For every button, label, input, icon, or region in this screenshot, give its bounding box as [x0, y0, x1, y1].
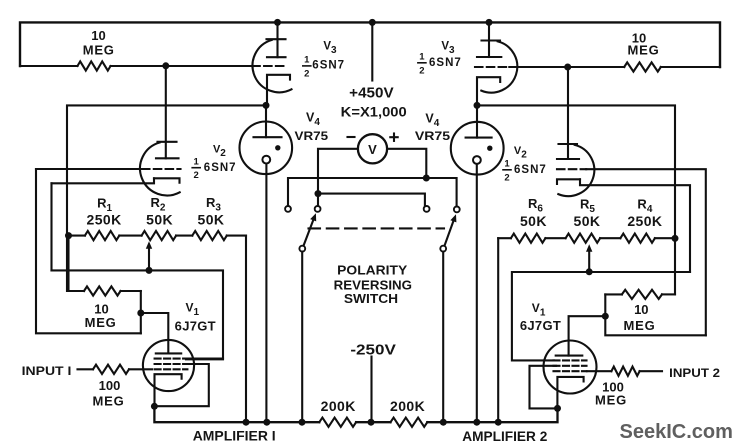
grid dashes row2 V1-right [554, 365, 587, 367]
svg-text:MEG: MEG [627, 43, 659, 58]
node V3-left plate junction on top rail [274, 19, 281, 26]
wire V2-right cathode line [580, 179, 690, 272]
gas dot V4-right [487, 146, 492, 151]
svg-text:AMPLIFIER I: AMPLIFIER I [193, 428, 276, 444]
node V4-right cathode on rail [473, 419, 480, 426]
wire -250V lead [370, 357, 372, 423]
switch arm 1 [304, 213, 317, 246]
svg-text:INPUT I: INPUT I [22, 364, 72, 378]
cathode V1-left [155, 374, 182, 406]
svg-text:50K: 50K [520, 213, 547, 229]
svg-text:250K: 250K [627, 213, 662, 229]
wire V1-left grid lead [141, 313, 169, 353]
pivot pole 1 [299, 246, 305, 252]
svg-text:MEG: MEG [85, 315, 117, 330]
resistor 200K right [391, 418, 428, 427]
wire meter plus sign [390, 134, 397, 141]
wire bottom rail mid [356, 421, 390, 423]
wire V3-left cathode to left rail [67, 105, 266, 291]
cathode bar V2-left [154, 178, 180, 182]
svg-text:V1: V1 [532, 301, 546, 319]
svg-text:MEG: MEG [595, 393, 627, 408]
svg-text:250K: 250K [87, 211, 122, 227]
node V2-left plate tap on grid line [162, 62, 169, 69]
node R4 right end on rail [672, 235, 679, 242]
wire meter plus lead [387, 149, 426, 178]
svg-text:200K: 200K [390, 398, 425, 414]
wire V3-right cathode to right rail [477, 105, 675, 294]
resistor chain R6 R5 R4 [498, 234, 675, 243]
grid dashes row1 V1-right [554, 359, 587, 361]
node R3 drop on rail [243, 419, 250, 426]
svg-text:50K: 50K [574, 213, 601, 229]
svg-text:V2: V2 [514, 145, 527, 161]
wire V2-left grid line [36, 168, 142, 170]
contact C2 [315, 206, 321, 212]
tube V3 right (1/2 6SN7) envelope [481, 41, 517, 93]
wire wiper line to V1-right screen [512, 272, 690, 360]
resistor 100 MEG right [611, 367, 662, 376]
cathode V1-right [557, 377, 583, 409]
wire bottom rail left end [154, 406, 319, 422]
svg-text:V: V [368, 142, 377, 157]
plate cap bar V1-right [556, 355, 583, 357]
wire V1-left input inside [129, 368, 152, 370]
node -250V on rail [368, 419, 375, 426]
wire V1-right grid lead [569, 316, 606, 355]
svg-text:V3: V3 [441, 41, 455, 57]
resistor 10 MEG lower-right [605, 290, 675, 299]
plate cap bar V1-left [156, 352, 181, 354]
wire V3-right plate lead [488, 22, 490, 57]
node V3-right cathode / V4-right anode [474, 102, 481, 109]
wire V2-left plate lead [165, 66, 167, 158]
resistor 10 MEG top-right [509, 62, 720, 71]
wire pole 1 to bottom rail [301, 252, 303, 423]
svg-text:V1: V1 [186, 300, 200, 318]
svg-text:+450V: +450V [349, 84, 393, 101]
node V1-right cathode junction [554, 405, 561, 412]
wire V1-left screen exit [186, 358, 223, 360]
svg-text:R6: R6 [528, 196, 543, 215]
svg-text:50K: 50K [198, 211, 225, 227]
svg-text:6SN7: 6SN7 [204, 162, 237, 174]
grid dashes V2-left [142, 168, 181, 170]
svg-text:MEG: MEG [92, 393, 124, 408]
grid dashes V3-right [475, 66, 509, 68]
node V2-right plate tap on grid line [564, 64, 571, 71]
wire B+ top rail with corner drops [20, 22, 720, 67]
wire meter minus lead [318, 149, 358, 194]
svg-text:REVERSING: REVERSING [334, 278, 412, 292]
plate bar V3-right [477, 56, 501, 58]
tube V4 right VR75 envelope [451, 122, 504, 175]
tube V2 right (1/2 6SN7) envelope [558, 144, 594, 196]
wire outer contact rail [288, 178, 457, 206]
svg-text:2: 2 [504, 172, 509, 183]
wire V4-right cathode to bottom rail [476, 164, 478, 422]
svg-text:100: 100 [99, 378, 121, 393]
svg-text:200K: 200K [321, 398, 356, 414]
node R2 wiper junction [146, 267, 153, 274]
wire wiper line to V1-left screen [52, 270, 224, 359]
wire R3 right end to bottom rail [245, 236, 247, 423]
plate bar V2-right [557, 158, 579, 160]
wiper arrow R2 [146, 241, 152, 270]
svg-text:V2: V2 [213, 144, 226, 160]
svg-text:MEG: MEG [83, 42, 115, 57]
svg-text:10: 10 [91, 28, 105, 43]
svg-text:POLARITY: POLARITY [337, 264, 408, 278]
wire V3-left plate lead [276, 22, 278, 57]
node R1 left end on rail [65, 232, 72, 239]
switch arm 2 [445, 214, 457, 245]
node V3-right plate junction on top rail [486, 19, 493, 26]
node +450V junction on top rail [369, 19, 376, 26]
meter V envelope [358, 134, 387, 163]
node V3-left cathode / V4-left anode [263, 102, 270, 109]
wire V4-left cathode to bottom rail [265, 164, 267, 422]
label 1/2 6SN7 V3-right [418, 52, 462, 77]
plate bar V3-left [267, 56, 286, 58]
node R5 wiper junction [586, 268, 593, 275]
svg-text:1: 1 [194, 157, 200, 168]
grid dashes row1 V1-left [155, 358, 188, 360]
wire V4-right anode lead [476, 105, 478, 137]
node meter minus to inner contacts [315, 190, 322, 197]
node V1-right grid junction [602, 313, 609, 320]
node V1-left cathode junction [151, 403, 158, 410]
svg-text:SWITCH: SWITCH [344, 292, 398, 306]
grid dashes row3 V1-right [554, 370, 587, 372]
wire V4-left anode lead [265, 105, 267, 137]
wire V1-right suppressor tie [530, 366, 557, 409]
svg-text:AMPLIFIER 2: AMPLIFIER 2 [462, 428, 547, 444]
svg-text:VR75: VR75 [295, 129, 329, 143]
contact C1 [285, 206, 291, 212]
tube V3 left (1/2 6SN7) envelope [253, 39, 292, 92]
grid dashes V3-left [252, 65, 285, 67]
svg-text:6J7GT: 6J7GT [175, 318, 216, 333]
gas dot V4-left [275, 145, 280, 150]
wire V1-left suppressor tie [158, 364, 209, 406]
label 1/2 6SN7 V2-left [192, 157, 236, 182]
wire V2-left cathode line [52, 178, 155, 183]
wire bottom rail right end [427, 408, 557, 422]
svg-text:50K: 50K [146, 211, 173, 227]
svg-text:MEG: MEG [623, 318, 655, 333]
svg-text:2: 2 [194, 170, 199, 181]
resistor 100 MEG left [78, 365, 130, 374]
cathode circle V4-left [262, 156, 270, 164]
svg-text:-250V: -250V [350, 341, 396, 358]
resistor 10 MEG top-left [20, 61, 252, 70]
grid dashes V2-right [557, 168, 586, 170]
grid dashes row3 V1-left [155, 368, 188, 370]
cathode bar V2-right [557, 179, 580, 184]
contact C4 [454, 207, 460, 213]
wire V2-right grid line [586, 169, 706, 335]
wiper arrow R5 [586, 244, 592, 271]
wire V1-right input inside [587, 370, 611, 372]
wire left rail to 10MEG lower [69, 236, 85, 291]
wire V2-right plate lead [567, 67, 569, 159]
anode bar V4-left [254, 136, 282, 138]
wire V2-left cathode drop [50, 183, 52, 270]
svg-text:2: 2 [419, 65, 424, 76]
node V1-left grid junction [137, 310, 144, 317]
svg-text:V4: V4 [425, 112, 439, 130]
svg-text:VR75: VR75 [415, 129, 451, 143]
contact C3 [424, 206, 430, 212]
svg-text:V4: V4 [306, 111, 320, 129]
node V4-left cathode on rail [263, 419, 270, 426]
wire pole 2 to bottom rail [442, 252, 444, 423]
svg-text:1: 1 [419, 52, 425, 63]
svg-text:SeekIC.com: SeekIC.com [620, 421, 733, 443]
svg-text:K=X1,000: K=X1,000 [341, 105, 407, 120]
label 1/2 6SN7 V2-right [503, 159, 547, 184]
wire inner contact rail [318, 194, 425, 206]
node pole1 on rail [299, 419, 306, 426]
resistor chain R1 R2 R3 [69, 231, 247, 240]
grid dashes row2 V1-left [155, 363, 188, 365]
svg-text:6SN7: 6SN7 [514, 164, 547, 176]
svg-text:6SN7: 6SN7 [312, 59, 345, 71]
tube V1 left 6J7GT envelope [143, 340, 194, 391]
dashed gang link [309, 227, 445, 229]
tube V2 left (1/2 6SN7) envelope [140, 142, 180, 196]
svg-text:1: 1 [504, 159, 510, 170]
wire V2-left grid drop [36, 169, 141, 333]
node meter plus on outer rail [423, 175, 430, 182]
wire R6 left end to bottom rail [497, 238, 499, 422]
tube V4 left VR75 envelope [239, 122, 292, 175]
node pole2 on rail [440, 419, 447, 426]
svg-text:2: 2 [304, 68, 309, 79]
plate bar V2-left [156, 157, 179, 159]
tube V1 right 6J7GT envelope [544, 341, 597, 394]
anode bar V4-right [466, 137, 492, 139]
svg-text:6SN7: 6SN7 [429, 57, 462, 69]
svg-text:V3: V3 [323, 41, 337, 57]
svg-text:6J7GT: 6J7GT [520, 318, 561, 333]
wire meter minus sign [348, 136, 355, 138]
wire 10MEG lower-right left corner [605, 294, 706, 335]
pivot pole 2 [440, 246, 446, 252]
cathode V3-right [477, 77, 500, 105]
svg-text:10: 10 [634, 302, 648, 317]
svg-text:1: 1 [304, 55, 310, 66]
resistor 10 MEG lower-left [84, 286, 141, 295]
wire 10MEG lower right corner [140, 291, 142, 333]
node R6 drop on rail [495, 419, 502, 426]
label 1/2 6SN7 V3-left [303, 55, 345, 80]
cathode V3-left [267, 75, 290, 106]
wire +450V feed lead [371, 22, 373, 80]
svg-text:INPUT 2: INPUT 2 [669, 366, 720, 380]
cathode circle V4-right [473, 156, 481, 164]
resistor 200K left [319, 418, 356, 427]
